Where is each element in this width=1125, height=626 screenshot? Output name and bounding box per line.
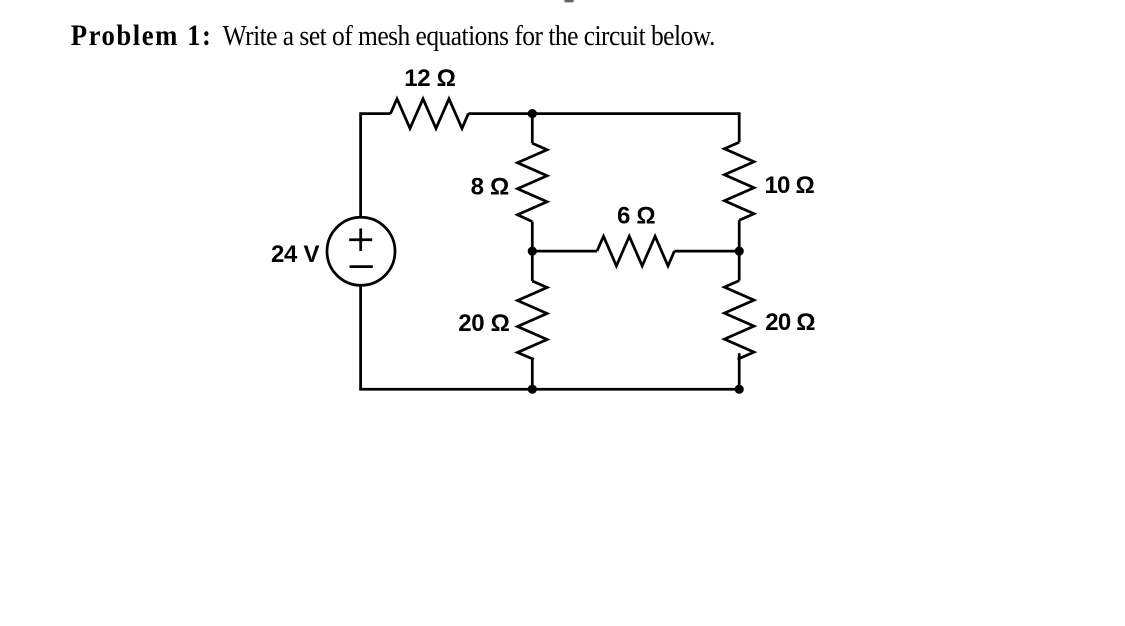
node junction dot middle right	[735, 247, 744, 256]
voltage source plus sign	[349, 229, 372, 252]
voltage source V1 24V circle	[327, 217, 395, 285]
wire middle horizontal (middle node to R 6ohm)	[532, 250, 597, 253]
wire middle vertical lead (middle node to R 20ohm)	[531, 251, 534, 281]
wire middle vertical lead (top node to R 8ohm)	[531, 114, 534, 144]
cropped glyph fragment at top edge	[564, 0, 573, 2]
wire middle vertical lead (R 8ohm to middle node)	[531, 222, 534, 252]
resistor R6 20ohm right body	[724, 281, 754, 360]
svg-text:6 Ω: 6 Ω	[617, 202, 655, 229]
wire middle vertical lead (R 20ohm to bottom node)	[531, 358, 534, 390]
wire right vertical lead (right node to R 20ohm right)	[738, 251, 741, 281]
voltage source minus sign	[350, 265, 373, 268]
wire top-left horizontal (left corner to R 12ohm)	[361, 112, 391, 115]
svg-text:Problem 1: Write a set of mesh: Problem 1: Write a set of mesh equations…	[71, 20, 715, 53]
svg-text:20 Ω: 20 Ω	[458, 310, 509, 337]
wire left vertical lower (source to bottom corner)	[359, 285, 362, 389]
resistor R1 12ohm body	[391, 99, 469, 129]
resistor R5 10ohm body	[724, 142, 754, 220]
node junction dot middle left	[528, 247, 537, 256]
wire right vertical lead (R 20ohm right to bottom node)	[738, 353, 741, 389]
node junction dot top middle	[528, 109, 537, 118]
svg-text:8 Ω: 8 Ω	[471, 174, 509, 201]
svg-text:20 Ω: 20 Ω	[765, 309, 815, 336]
resistor R3 20ohm left body	[518, 281, 548, 359]
wire bottom horizontal	[361, 389, 740, 390]
svg-text:24 V: 24 V	[271, 241, 319, 268]
svg-text:12 Ω: 12 Ω	[404, 65, 455, 92]
wire right vertical lead (R 10ohm to right node)	[738, 220, 741, 251]
wire right vertical lead (top-right corner to R 10ohm)	[738, 112, 741, 142]
resistor R2 8ohm body	[518, 143, 548, 221]
wire top horizontal (R 12ohm to top-right corner)	[468, 112, 739, 115]
resistor R4 6ohm body	[597, 236, 674, 266]
node junction dot bottom right	[735, 385, 744, 394]
wire left vertical upper (top corner to source)	[359, 112, 362, 218]
wire middle horizontal (R 6ohm to right node)	[674, 250, 739, 253]
svg-text:10 Ω: 10 Ω	[764, 172, 814, 199]
node junction dot bottom middle	[528, 385, 537, 394]
